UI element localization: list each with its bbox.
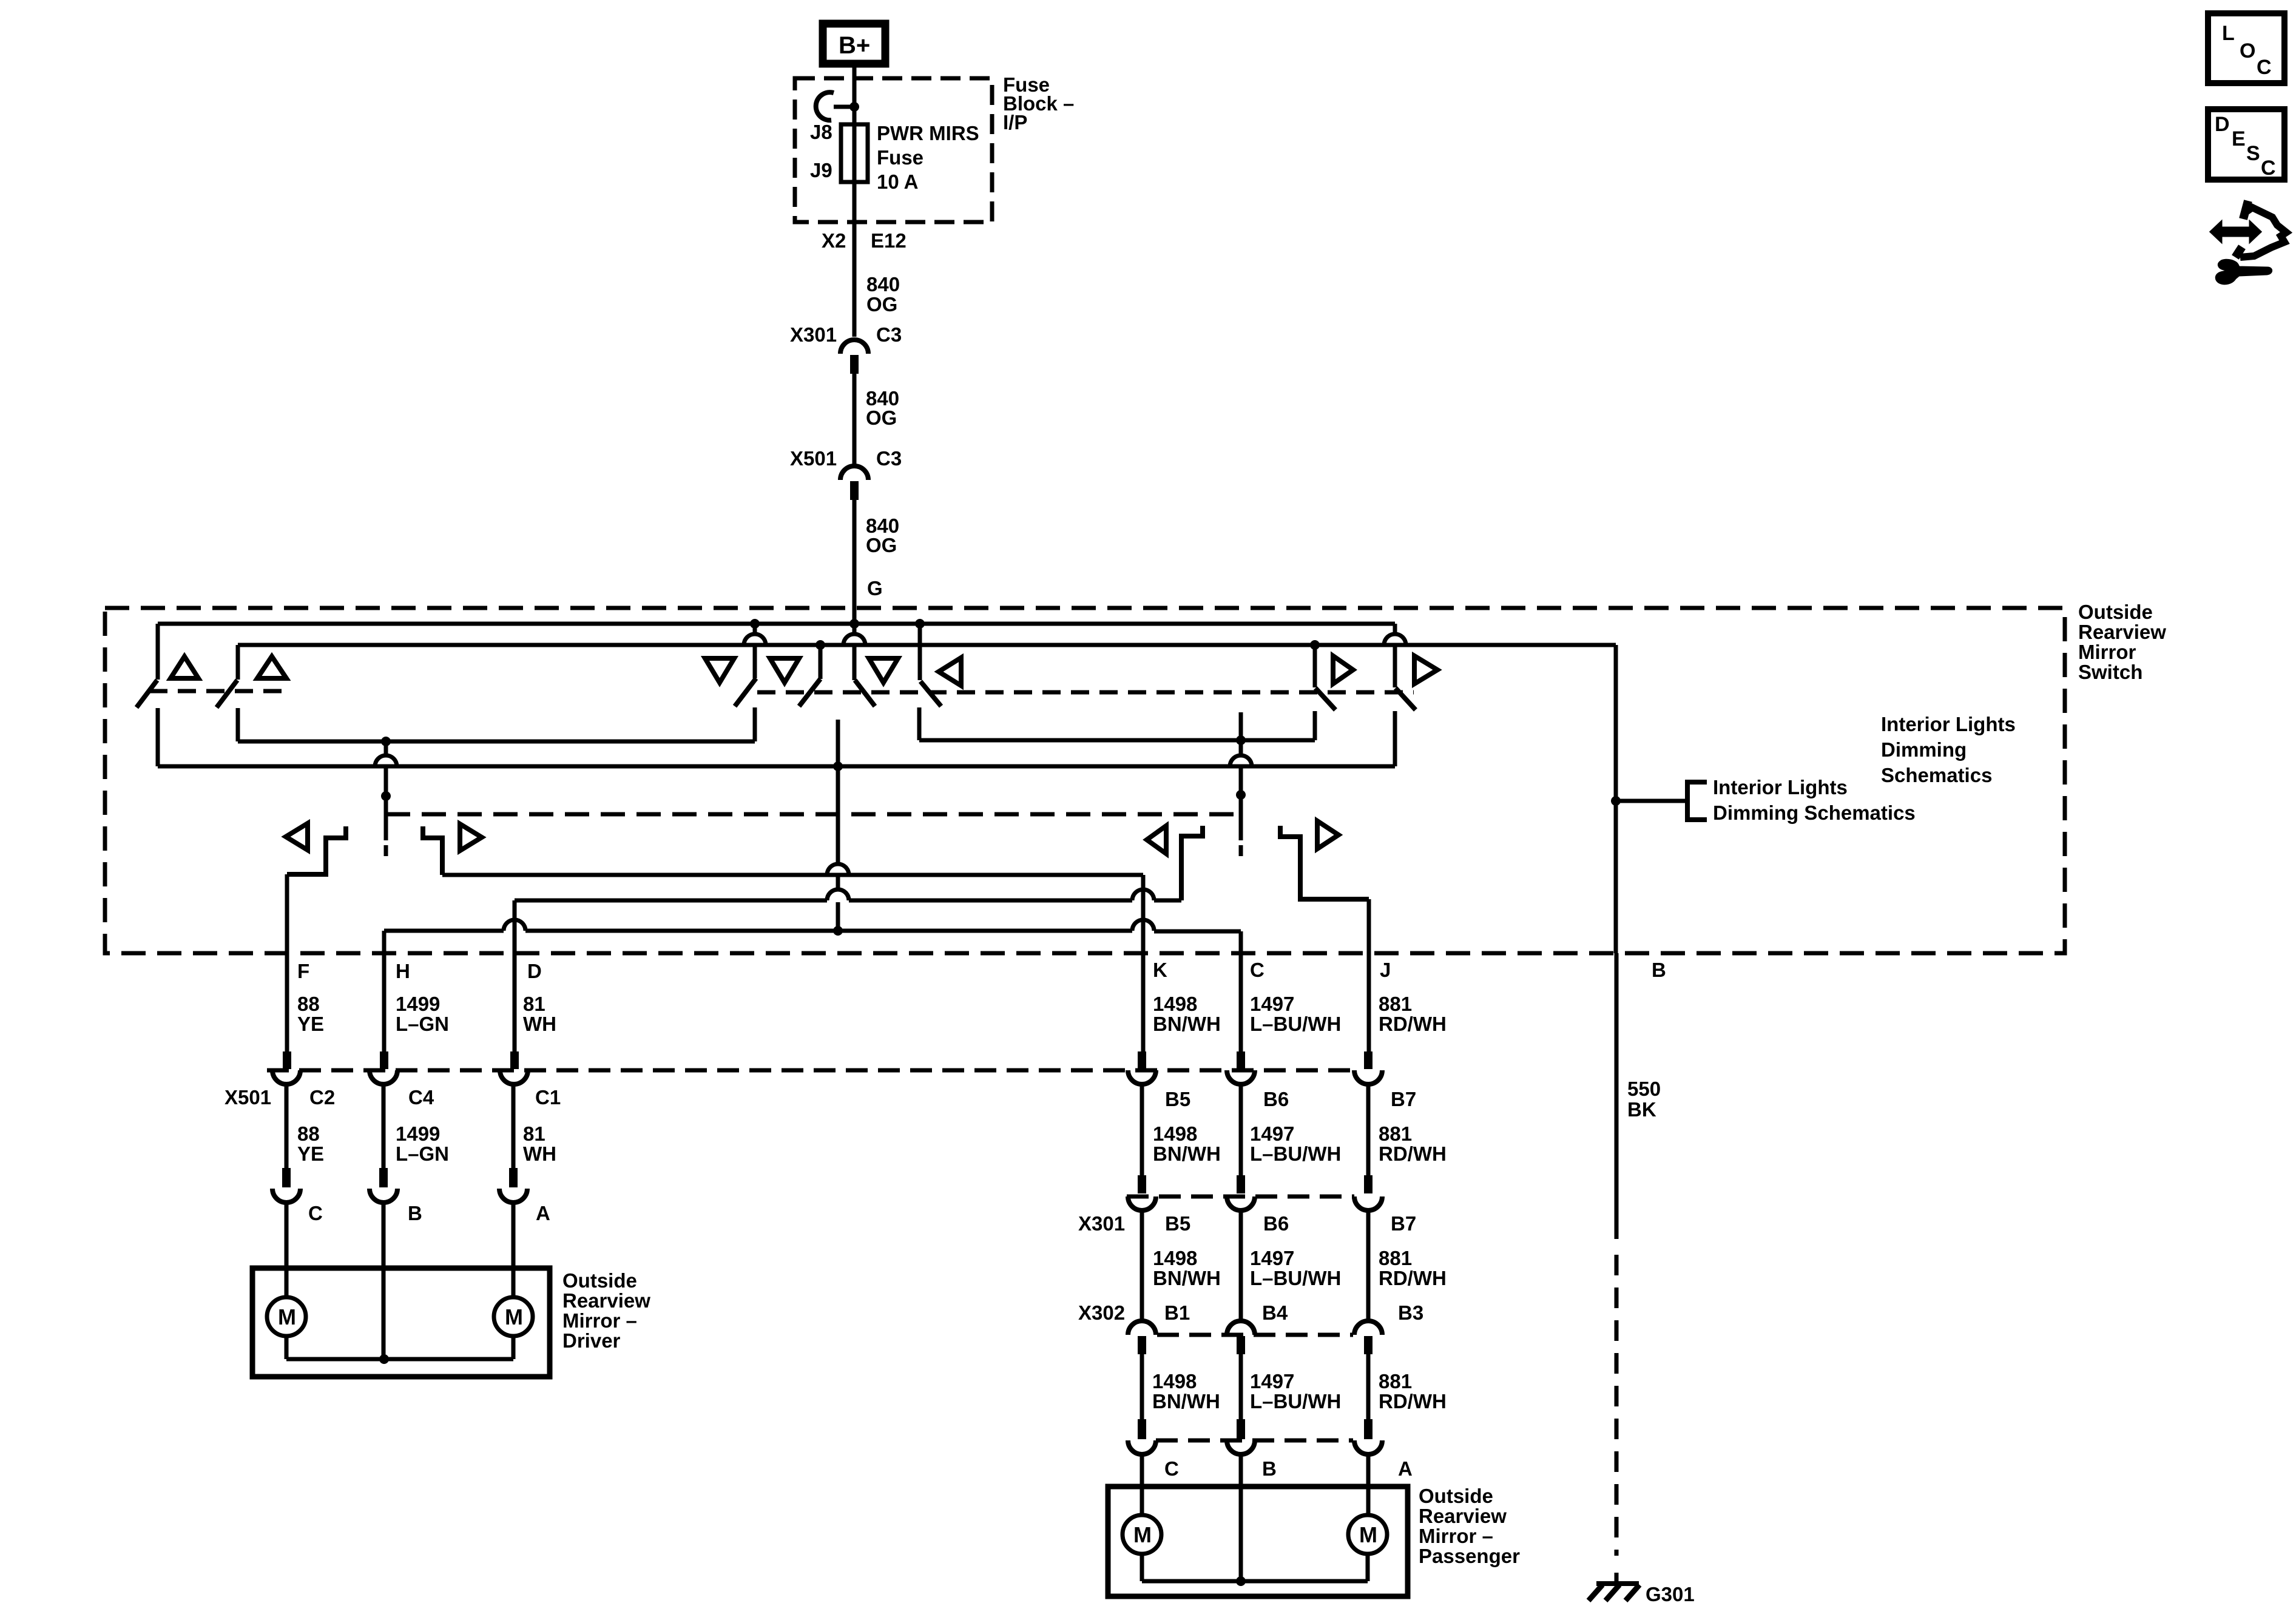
switch Sw1 feed xyxy=(753,624,757,635)
connector X301-B7 xyxy=(1364,1175,1373,1193)
svg-text:BN/WH: BN/WH xyxy=(1152,1390,1220,1412)
switch Sw4 lever xyxy=(920,681,941,706)
connector X301 C3 inline xyxy=(840,340,868,354)
svg-text:G301: G301 xyxy=(1646,1583,1695,1605)
svg-text:OG: OG xyxy=(866,534,897,556)
wire K row2-row3 xyxy=(1140,1210,1144,1321)
svg-text:1497: 1497 xyxy=(1250,993,1294,1015)
wire H to mirror connector xyxy=(382,1084,386,1168)
svg-text:X501: X501 xyxy=(225,1086,271,1109)
svg-text:OG: OG xyxy=(866,407,897,429)
current tap symbol at fuse feed xyxy=(816,92,834,120)
junction dot passenger bus xyxy=(1236,1576,1246,1586)
svg-text:Mirror –: Mirror – xyxy=(1419,1525,1493,1547)
service icon double arrow xyxy=(2210,221,2261,242)
switch Sw6 contact xyxy=(1393,711,1397,766)
connector X501-C2 xyxy=(283,1051,291,1069)
svg-text:B1: B1 xyxy=(1164,1301,1190,1324)
svg-text:L: L xyxy=(2222,22,2235,45)
svg-text:C1: C1 xyxy=(535,1086,561,1109)
svg-text:G: G xyxy=(867,577,883,599)
connector X302-B1 xyxy=(1128,1321,1156,1335)
dimming bracket xyxy=(1687,782,1707,820)
svg-text:RD/WH: RD/WH xyxy=(1379,1267,1447,1289)
right selector mech dashes xyxy=(1239,845,1243,856)
selector left contact step to F xyxy=(287,826,346,874)
svg-text:D: D xyxy=(527,960,542,982)
svg-text:550: 550 xyxy=(1627,1078,1661,1100)
svg-text:A: A xyxy=(536,1202,550,1224)
switch Sw4 feed xyxy=(918,624,922,680)
svg-text:M: M xyxy=(1359,1522,1377,1547)
left selector pivot stem xyxy=(384,768,388,840)
outside rearview mirror passenger box xyxy=(1108,1487,1408,1596)
wire 550 BK solid xyxy=(1615,953,1619,1239)
svg-text:A: A xyxy=(1398,1457,1413,1480)
svg-text:C3: C3 xyxy=(876,323,902,346)
junction dot G entry xyxy=(849,619,859,629)
svg-text:X301: X301 xyxy=(1078,1212,1125,1235)
svg-text:1499: 1499 xyxy=(396,993,440,1015)
mirror left triangle T6 xyxy=(939,658,961,686)
wire A into passenger mirror xyxy=(1366,1454,1371,1515)
svg-text:BN/WH: BN/WH xyxy=(1153,1013,1221,1035)
arrow up triangle T2 xyxy=(257,656,286,678)
LOC reference box xyxy=(2208,13,2284,83)
wire B column inside box xyxy=(1614,801,1618,953)
connector X302-B3 xyxy=(1354,1321,1382,1335)
svg-text:1497: 1497 xyxy=(1250,1122,1294,1145)
wire B+ to fuse (840 feed) xyxy=(853,67,857,337)
svg-text:1498: 1498 xyxy=(1153,993,1197,1015)
switch Sw3 lever xyxy=(855,680,875,706)
svg-text:WH: WH xyxy=(523,1142,556,1165)
svg-text:1498: 1498 xyxy=(1153,1122,1197,1145)
DESC reference box xyxy=(2208,109,2284,180)
connector X501-C4 xyxy=(380,1051,388,1069)
svg-text:I/P: I/P xyxy=(1003,111,1027,133)
connector X501-B6 xyxy=(1237,1051,1245,1069)
wire B into driver mirror xyxy=(382,1202,386,1359)
connector row X501 dashed line xyxy=(267,1068,1356,1073)
svg-text:L–BU/WH: L–BU/WH xyxy=(1250,1267,1341,1289)
svg-text:X501: X501 xyxy=(790,447,837,470)
svg-text:881: 881 xyxy=(1379,1247,1412,1269)
svg-text:B4: B4 xyxy=(1262,1301,1288,1324)
motor M driver horizontal xyxy=(494,1297,533,1336)
svg-text:Schematics: Schematics xyxy=(1881,764,1992,786)
svg-text:88: 88 xyxy=(297,993,320,1015)
connector row X301 dashed line xyxy=(1127,1195,1354,1199)
fuse block dashed outline xyxy=(795,78,992,222)
selector left contact step (passenger) xyxy=(1181,826,1203,900)
svg-text:81: 81 xyxy=(523,993,545,1015)
connector passenger B xyxy=(1237,1419,1245,1439)
wire H column upper xyxy=(382,931,387,1051)
outside rearview mirror driver box xyxy=(252,1268,550,1377)
svg-text:C3: C3 xyxy=(876,447,902,470)
svg-text:B: B xyxy=(1262,1457,1277,1480)
wire G into switch xyxy=(853,500,857,624)
svg-text:RD/WH: RD/WH xyxy=(1379,1142,1447,1165)
connector X501-C1 xyxy=(510,1051,519,1069)
svg-text:Outside: Outside xyxy=(562,1269,637,1292)
svg-text:B7: B7 xyxy=(1391,1212,1416,1235)
connector driver mirror B xyxy=(379,1168,388,1187)
outside rearview mirror switch dashed box xyxy=(105,608,2065,953)
dimming takeoff line xyxy=(1616,799,1687,803)
svg-text:J9: J9 xyxy=(810,159,832,181)
svg-text:F: F xyxy=(297,960,309,982)
mirror down triangle T5 xyxy=(869,658,898,683)
svg-text:O: O xyxy=(2240,39,2255,62)
junction dot center drop at motor line xyxy=(833,926,843,936)
svg-text:OG: OG xyxy=(866,293,897,316)
svg-text:WH: WH xyxy=(523,1013,556,1035)
svg-text:RD/WH: RD/WH xyxy=(1379,1013,1447,1035)
svg-text:Passenger: Passenger xyxy=(1419,1545,1520,1567)
svg-text:M: M xyxy=(1133,1522,1152,1547)
passenger mirror internal bus xyxy=(1140,1554,1144,1581)
svg-text:B: B xyxy=(408,1202,422,1224)
corner K line to K column xyxy=(1141,875,1146,1051)
inner bus bottom line right xyxy=(919,738,1315,743)
svg-text:881: 881 xyxy=(1379,1122,1412,1145)
connector row X302 dashed line xyxy=(1157,1333,1353,1337)
svg-text:88: 88 xyxy=(297,1122,320,1145)
inner bus right corner to B xyxy=(1614,645,1618,801)
interior dimming dashed separator xyxy=(386,812,1239,817)
wire C row2-row3 xyxy=(1239,1210,1243,1321)
svg-text:Switch: Switch xyxy=(2078,661,2142,683)
svg-text:S: S xyxy=(2246,142,2260,165)
svg-text:PWR MIRS: PWR MIRS xyxy=(877,122,979,144)
connector X501 C3 inline xyxy=(840,466,868,480)
svg-text:L–GN: L–GN xyxy=(396,1142,449,1165)
center shared contact xyxy=(836,720,840,766)
svg-text:J: J xyxy=(1380,959,1391,981)
svg-text:B5: B5 xyxy=(1165,1088,1190,1110)
junction dot driver bus xyxy=(379,1354,389,1364)
corner C line to C column xyxy=(1239,931,1243,1051)
svg-text:X302: X302 xyxy=(1078,1301,1125,1324)
wire K row1-row2 xyxy=(1140,1084,1144,1175)
right selector common from inner bus xyxy=(1236,735,1246,745)
switch Sw1 lever xyxy=(735,678,756,706)
switch Sw2 feed xyxy=(819,645,823,679)
svg-text:L–GN: L–GN xyxy=(396,1013,449,1035)
wire D column upper xyxy=(513,900,517,1051)
mirror down triangle T3 xyxy=(705,658,734,683)
selector left triangle (passenger) xyxy=(1147,826,1166,854)
wire J row1-row2 xyxy=(1366,1084,1371,1175)
service icon wrench xyxy=(2216,260,2271,284)
svg-text:B7: B7 xyxy=(1391,1088,1416,1110)
svg-text:Dimming: Dimming xyxy=(1881,738,1967,761)
wire A into driver mirror xyxy=(512,1202,516,1297)
svg-text:J8: J8 xyxy=(810,121,832,143)
svg-text:81: 81 xyxy=(523,1122,545,1145)
switch Sw6 feed from outer bus corner xyxy=(1393,624,1397,635)
switch Sw3 feed xyxy=(853,624,857,635)
wire J row2-row3 xyxy=(1366,1210,1371,1321)
svg-text:X2: X2 xyxy=(822,229,846,252)
right selector pivot stem xyxy=(1239,768,1243,840)
left selector common from inner bus xyxy=(381,737,391,746)
selector right triangle (passenger) xyxy=(1317,821,1339,849)
inner bus top line xyxy=(238,643,1616,647)
mirror right triangle T7 xyxy=(1333,656,1353,684)
wire H-C motor line xyxy=(384,929,504,933)
svg-text:Outside: Outside xyxy=(2078,601,2153,623)
wire K line from selector xyxy=(442,873,1143,877)
svg-text:B: B xyxy=(1652,959,1666,981)
svg-text:YE: YE xyxy=(297,1142,324,1165)
wire B into passenger mirror xyxy=(1239,1454,1243,1581)
switch SwA lower contact xyxy=(156,708,160,766)
battery feed B+ terminal box xyxy=(823,24,885,64)
selector right contact step to J xyxy=(1280,826,1369,899)
svg-text:C: C xyxy=(2257,56,2272,79)
wire D line xyxy=(515,899,827,903)
outer bus top line xyxy=(158,622,1395,626)
inner bus bottom line left xyxy=(238,740,755,744)
svg-text:BN/WH: BN/WH xyxy=(1153,1267,1221,1289)
outer bus bottom line xyxy=(158,764,1395,769)
connector passenger C xyxy=(1138,1419,1146,1439)
svg-text:Rearview: Rearview xyxy=(562,1289,650,1312)
junction dot right selector pivot xyxy=(1236,790,1246,800)
switch SwA lever xyxy=(137,680,157,707)
arrow up triangle T1 xyxy=(171,656,198,678)
driver mirror internal bus xyxy=(285,1336,289,1359)
motor M passenger vertical xyxy=(1123,1515,1161,1554)
junction dot sw2 feed xyxy=(815,640,825,650)
connector X501-B5 xyxy=(1138,1051,1146,1069)
svg-text:RD/WH: RD/WH xyxy=(1379,1390,1447,1412)
selector right triangle (driver) xyxy=(460,824,482,851)
selector left triangle (driver) xyxy=(286,823,308,850)
switch SwB feed (inner left) xyxy=(236,645,240,680)
switch SwB lower contact xyxy=(236,708,240,741)
svg-text:X301: X301 xyxy=(790,323,837,346)
junction dot sw4 feed xyxy=(915,619,925,629)
wire C row1-row2 xyxy=(1239,1084,1243,1175)
svg-text:B3: B3 xyxy=(1398,1301,1423,1324)
switch SwA feed (outer left) xyxy=(156,624,160,680)
svg-text:C2: C2 xyxy=(309,1086,335,1109)
junction dot fuse feed xyxy=(849,102,859,112)
svg-text:B+: B+ xyxy=(839,32,870,59)
svg-text:840: 840 xyxy=(866,273,900,295)
switch Sw2 lever xyxy=(799,679,820,706)
wire D to mirror connector xyxy=(512,1084,516,1168)
svg-text:D: D xyxy=(2215,113,2230,136)
connector driver mirror A xyxy=(509,1168,518,1187)
junction dot left selector pivot xyxy=(381,791,391,801)
connector passenger A xyxy=(1364,1419,1373,1439)
wire 550 BK dashed xyxy=(1615,1255,1619,1556)
svg-text:1499: 1499 xyxy=(396,1122,440,1145)
wire F column upper xyxy=(285,874,289,1051)
center common drop to motor line xyxy=(836,766,840,865)
svg-text:Fuse: Fuse xyxy=(877,146,923,169)
svg-text:Interior Lights: Interior Lights xyxy=(1881,713,2016,735)
svg-text:C: C xyxy=(2261,157,2276,180)
junction dot center contact xyxy=(833,761,843,771)
svg-text:1497: 1497 xyxy=(1250,1370,1294,1392)
switch Sw5 contact xyxy=(1313,711,1317,740)
svg-text:Mirror –: Mirror – xyxy=(562,1309,637,1332)
svg-text:C4: C4 xyxy=(408,1086,434,1109)
connector X301-B6 xyxy=(1237,1175,1245,1193)
fuse F1 PWR MIRS 10A xyxy=(841,124,868,182)
svg-text:B5: B5 xyxy=(1165,1212,1190,1235)
motor M driver vertical xyxy=(267,1297,306,1336)
mech link dashes top row xyxy=(757,690,1414,695)
junction dot sw1 feed xyxy=(750,619,760,629)
connector driver mirror C xyxy=(282,1168,291,1187)
switch Sw5 lever xyxy=(1315,688,1335,710)
wire J column upper xyxy=(1367,899,1371,1051)
connector X501-B7 xyxy=(1364,1051,1373,1069)
svg-text:Driver: Driver xyxy=(562,1329,621,1352)
svg-text:L–BU/WH: L–BU/WH xyxy=(1250,1390,1341,1412)
connector row passenger mirror dashed line xyxy=(1156,1439,1353,1443)
wire 840 OG between connectors xyxy=(853,374,857,467)
svg-text:L–BU/WH: L–BU/WH xyxy=(1250,1013,1341,1035)
junction dot sw5 feed xyxy=(1310,640,1320,650)
svg-text:881: 881 xyxy=(1379,1370,1412,1392)
svg-text:H: H xyxy=(396,960,410,982)
wire C into passenger mirror xyxy=(1140,1454,1144,1515)
junction dot B dimming takeoff xyxy=(1611,796,1621,806)
svg-text:C: C xyxy=(308,1202,323,1224)
connector X302-B4 xyxy=(1227,1321,1255,1335)
svg-text:E: E xyxy=(2232,127,2246,150)
mirror down triangle T4 xyxy=(770,658,799,683)
svg-text:Interior Lights: Interior Lights xyxy=(1713,776,1848,798)
svg-text:B6: B6 xyxy=(1263,1088,1289,1110)
switch Sw5 feed xyxy=(1313,645,1317,687)
wire K row3-row4 xyxy=(1140,1354,1144,1419)
svg-text:10 A: 10 A xyxy=(877,170,918,193)
left selector mech dashes xyxy=(384,845,388,856)
svg-text:C: C xyxy=(1250,959,1264,981)
svg-text:B6: B6 xyxy=(1263,1212,1289,1235)
svg-text:1498: 1498 xyxy=(1152,1370,1197,1392)
selector right contact step to K line xyxy=(423,826,442,875)
svg-text:Rearview: Rearview xyxy=(1419,1505,1507,1527)
wire C into driver mirror xyxy=(285,1202,289,1297)
svg-text:L–BU/WH: L–BU/WH xyxy=(1250,1142,1341,1165)
svg-text:C: C xyxy=(1164,1457,1179,1480)
svg-text:881: 881 xyxy=(1379,993,1412,1015)
wire F to mirror connector xyxy=(285,1084,289,1168)
switch Sw6 lever xyxy=(1396,688,1416,710)
svg-text:Dimming Schematics: Dimming Schematics xyxy=(1713,802,1916,824)
service icon connector jaw xyxy=(2243,201,2248,219)
mirror right triangle T8 xyxy=(1414,656,1437,684)
svg-text:E12: E12 xyxy=(871,229,907,252)
switch Sw1 contact to inner bus xyxy=(753,707,757,741)
ground G301 symbol xyxy=(1615,1573,1619,1584)
switch SwB lever xyxy=(217,680,237,707)
svg-text:K: K xyxy=(1153,959,1167,981)
svg-text:1498: 1498 xyxy=(1153,1247,1197,1269)
svg-text:BN/WH: BN/WH xyxy=(1153,1142,1221,1165)
connector X301-B5 xyxy=(1138,1175,1146,1193)
svg-text:1497: 1497 xyxy=(1250,1247,1294,1269)
svg-text:BK: BK xyxy=(1627,1098,1656,1121)
mech link dashes left pair xyxy=(149,689,285,694)
switch Sw4 contact xyxy=(917,707,922,740)
svg-text:Outside: Outside xyxy=(1419,1485,1493,1507)
svg-text:M: M xyxy=(278,1304,296,1329)
svg-text:Rearview: Rearview xyxy=(2078,621,2166,643)
svg-text:M: M xyxy=(505,1304,523,1329)
motor M passenger horizontal xyxy=(1348,1515,1387,1554)
svg-text:Mirror: Mirror xyxy=(2078,641,2136,663)
wire J row3-row4 xyxy=(1366,1354,1371,1419)
wire C row3-row4 xyxy=(1239,1354,1243,1419)
svg-text:YE: YE xyxy=(297,1013,324,1035)
